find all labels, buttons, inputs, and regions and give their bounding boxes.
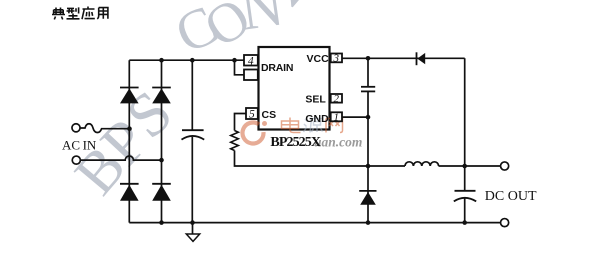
junction drain branch on +rail [232,58,237,63]
svg-text:GND: GND [305,113,329,125]
电 [282,118,301,133]
ground stub [192,223,194,234]
svg-text:2: 2 [334,93,340,105]
svg-text:5: 5 [249,109,255,121]
svg-text:uan.com: uan.com [314,135,362,150]
bridge diode D3 bottom-left [120,184,139,201]
drain loop [235,60,245,75]
vcc cap rail [367,58,369,222]
terminal DC top [501,162,509,170]
capacitor C2 (VCC) [361,87,375,92]
junction C1 to +rail [190,58,195,63]
svg-text:DRAIN: DRAIN [261,62,293,74]
bridge diode D2 top-right [152,88,171,104]
watermark 电源网 chars [282,118,343,133]
diode D5 (VCC) [417,52,426,65]
inductor L1 [405,162,439,166]
svg-text:SEL: SEL [305,93,326,105]
svg-text:CS: CS [262,109,277,121]
drain pin box 2nd [244,70,258,81]
IC U1 body [259,47,330,130]
right rail down [464,58,466,222]
网 [326,119,343,133]
pin 2 box [331,94,342,103]
pin 4 box [244,55,258,66]
watermark seal letters BPS CONV [62,0,328,207]
junction C1/ground to -rail [190,220,195,225]
VCC wire [342,57,465,59]
inductor out to terminal [439,165,501,167]
junction SW node [366,164,371,169]
pin 5 box [246,108,258,119]
bridge diode D4 bottom-right [152,184,171,201]
bridge right branch [161,60,163,222]
junction AC-L to bridge left leg [127,126,132,131]
junction AC-N to bridge right leg [159,158,164,163]
junction bridge right leg to -rail [159,220,164,225]
wire AC bottom with hop [80,156,161,160]
svg-text:DC OUT: DC OUT [485,189,537,204]
GND wire [342,116,368,118]
char 应 [82,7,95,20]
resistor R1 [231,131,239,151]
ground [186,234,199,241]
svg-text:4: 4 [248,55,254,67]
freewheel diode D6 [359,191,376,205]
SW line to inductor [368,165,405,167]
junction GND pin to C2 branch [366,115,371,120]
svg-text:ACIN: ACIN [62,137,97,152]
bridge left branch [128,60,130,222]
input cap branch [191,60,193,222]
char 用 [97,8,108,19]
junction bridge right leg to +rail [159,58,164,63]
top rail [129,59,244,61]
pin 1 box [331,112,342,121]
watermark dianyuan logo ring [243,121,267,144]
CS resistor wiring [235,114,369,167]
char 型 [67,7,80,18]
output capacitor C3 [454,191,476,202]
svg-text:1: 1 [334,112,340,124]
junction C3 bottom to -rail [462,220,467,225]
terminal AC bottom [72,156,80,164]
terminal DC bottom [501,219,509,227]
title 典型应用 (drawn strokes) [52,7,108,20]
circuit wires [80,58,501,234]
svg-text:3: 3 [333,53,340,65]
源 (bluish) [304,119,323,133]
wire AC top with fuse [80,124,130,133]
junction D6 anode to -rail [366,220,371,225]
bridge diode D1 top-left [120,88,139,104]
bottom rail [129,222,500,224]
pin 3 box [331,54,342,63]
input capacitor C1 [182,130,205,139]
char 典 [52,8,65,20]
junction L1 out / C3 top [462,164,467,169]
junction VCC node [366,56,371,61]
terminal AC top [72,124,80,132]
svg-text:VCC: VCC [307,53,330,65]
svg-text:BP2525X: BP2525X [270,135,320,150]
